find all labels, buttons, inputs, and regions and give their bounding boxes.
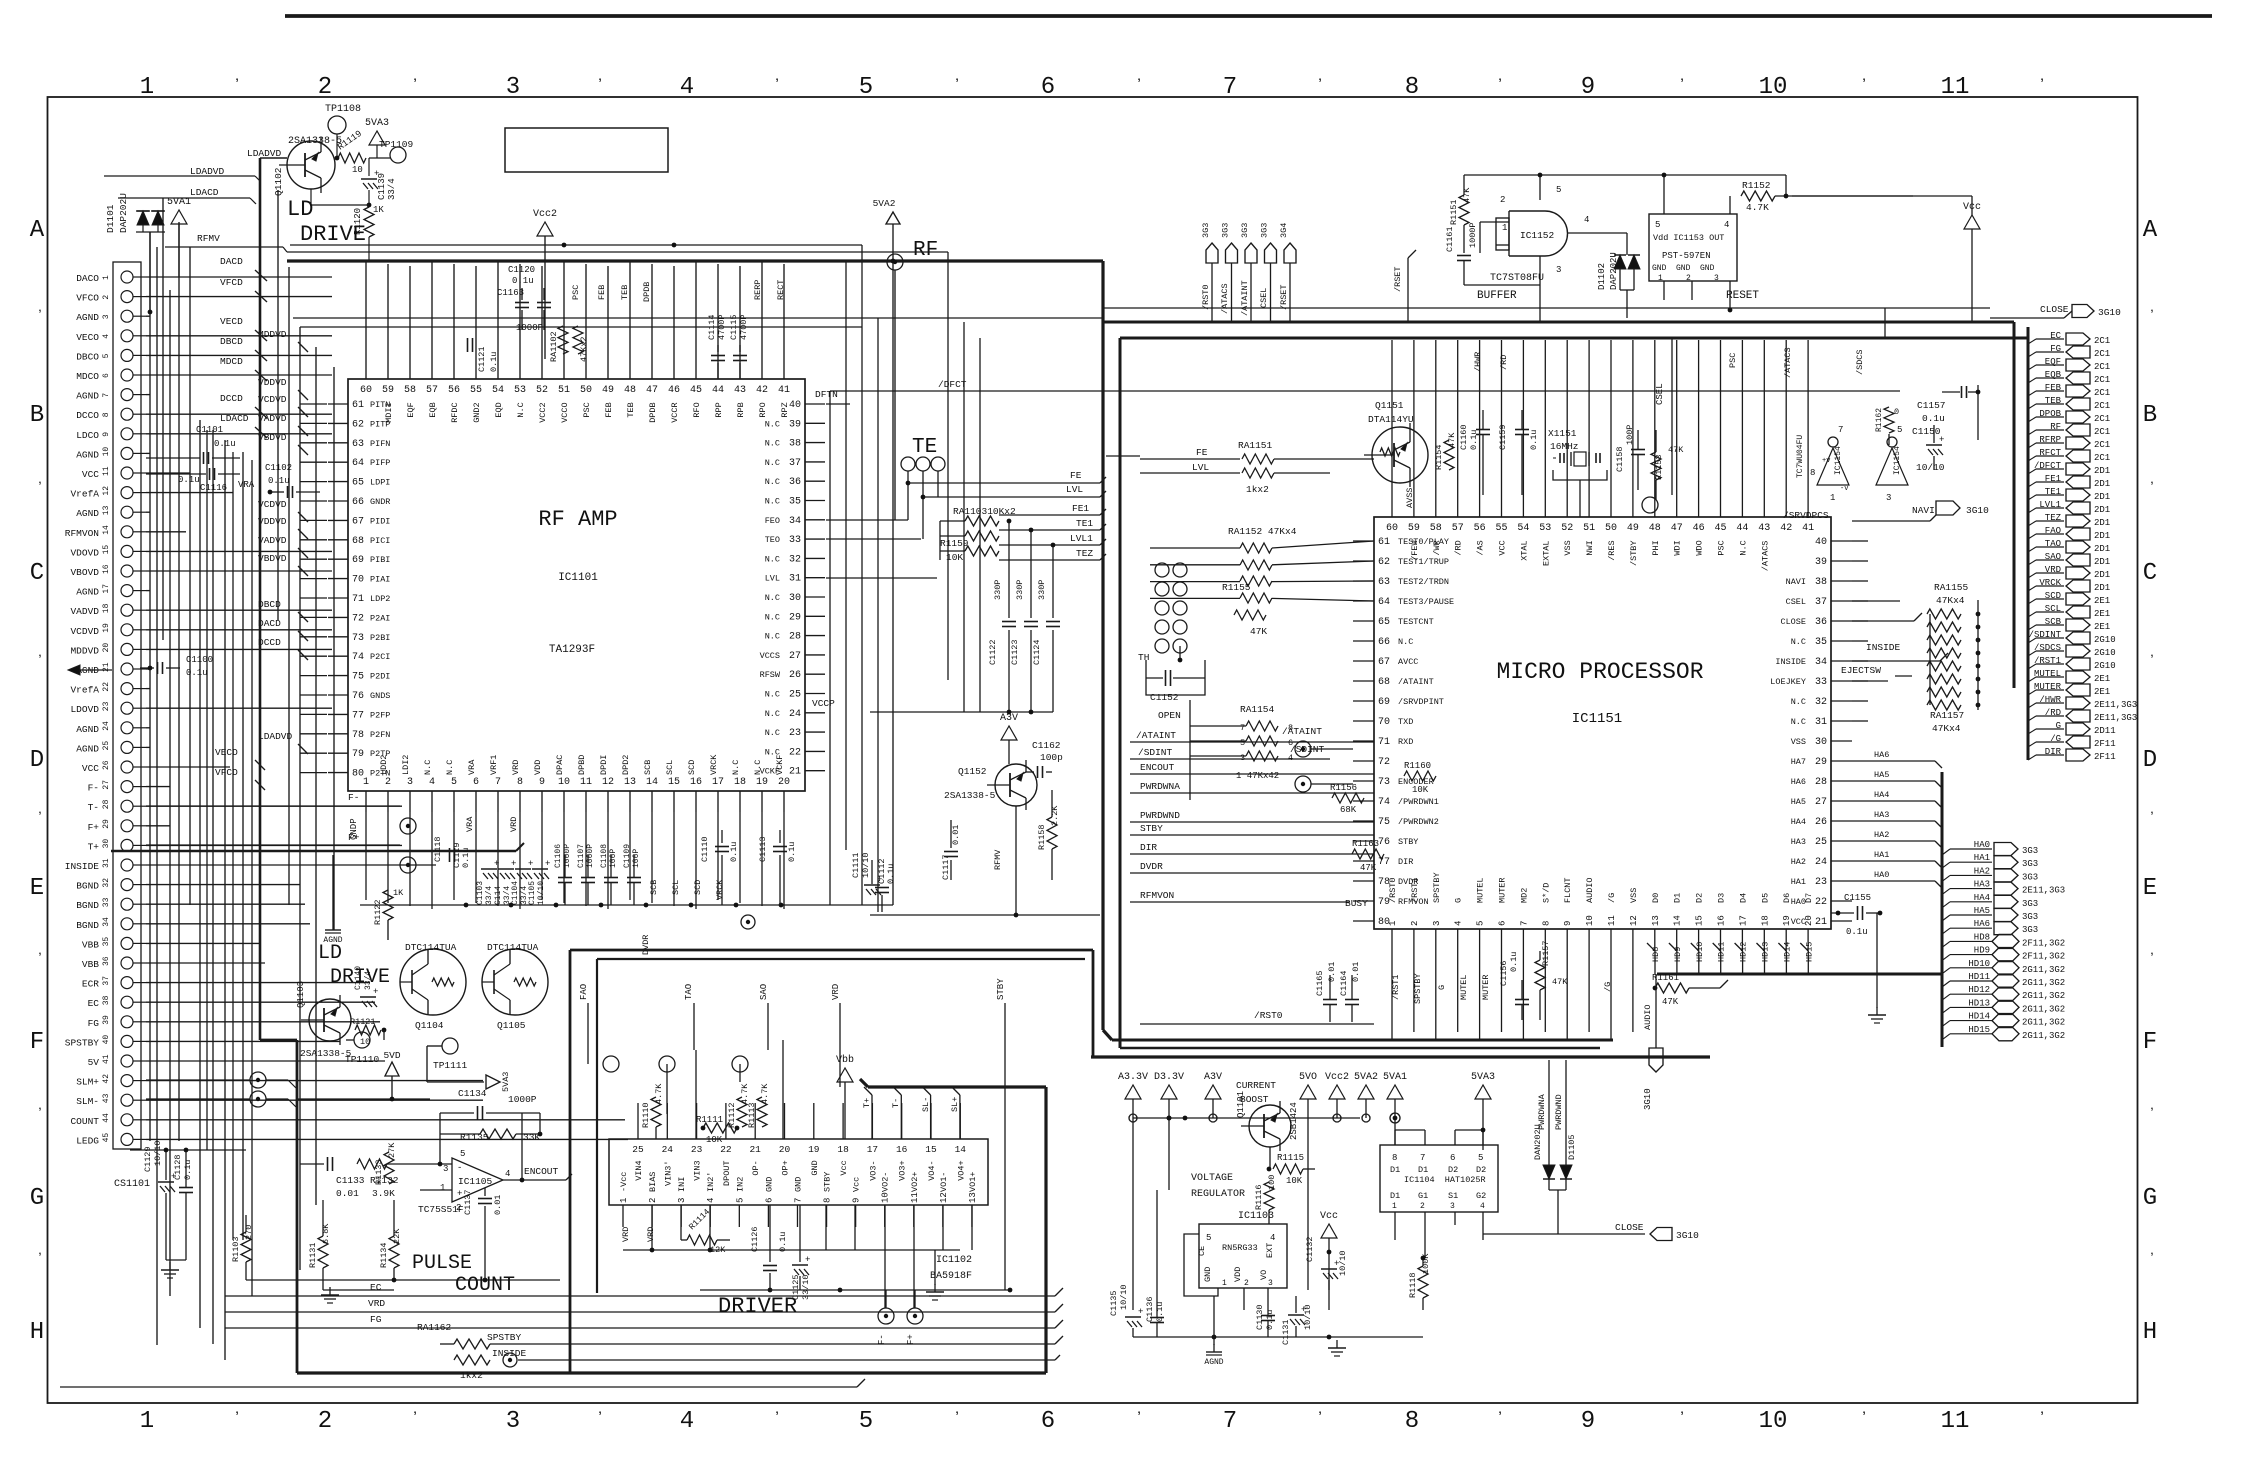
svg-text:RERP: RERP <box>753 280 763 300</box>
svg-text:5: 5 <box>102 353 111 358</box>
wire vertical bundle <box>156 247 158 1345</box>
svg-text:50: 50 <box>580 385 592 396</box>
svg-text:HD15: HD15 <box>1968 1025 1990 1035</box>
svg-text:TC75S51F: TC75S51F <box>418 1204 464 1215</box>
svg-text:12: 12 <box>939 1192 949 1203</box>
net arrow HD12 <box>1942 994 1950 1000</box>
connector CS1101 pin 20 (MDDVD) <box>121 643 133 655</box>
svg-text:SCB: SCB <box>643 760 653 775</box>
svg-text:SPSTBY: SPSTBY <box>487 1332 522 1343</box>
svg-text:25: 25 <box>102 741 111 751</box>
IC1151 pin 17 bottom <box>1741 929 1743 951</box>
svg-text:VDDVD: VDDVD <box>258 516 287 527</box>
svg-text:14: 14 <box>955 1144 967 1155</box>
power Vcc2 above RF AMP <box>537 222 553 236</box>
svg-text:S1: S1 <box>1448 1191 1458 1201</box>
IC1101 pin 13 bottom <box>629 791 631 812</box>
wire to IC1101 left pin <box>300 422 327 424</box>
svg-text:+v: +v <box>1822 457 1830 465</box>
wires IC1104 top <box>1394 1130 1396 1145</box>
IC1151 pin 76 left <box>1353 840 1374 842</box>
svg-text:P2CI: P2CI <box>370 652 390 662</box>
svg-text:18: 18 <box>734 777 746 788</box>
svg-text:TP1108: TP1108 <box>325 104 361 115</box>
svg-text:EJECTSW: EJECTSW <box>1841 665 1881 676</box>
wire from CS1101 pin 18 <box>146 609 332 611</box>
svg-text:77: 77 <box>352 710 364 721</box>
connector CS1101 pin 2 (VFCO) <box>121 291 133 303</box>
wire from CS1101 pin 32 <box>146 884 300 886</box>
transistor Q1152 2SA1338-5 <box>995 764 1037 806</box>
svg-text:ʼ: ʼ <box>1315 77 1325 95</box>
svg-text:C1124: C1124 <box>1032 639 1042 665</box>
svg-text:/HWR: /HWR <box>1473 352 1483 372</box>
svg-text:H: H <box>2143 1319 2157 1346</box>
svg-text:LDCO: LDCO <box>76 430 99 441</box>
IC1101 pin 27 right <box>805 654 825 656</box>
IC1151 pin 7 bottom <box>1522 929 1524 951</box>
svg-text:21: 21 <box>1815 917 1827 928</box>
svg-text:N.C: N.C <box>1791 697 1806 707</box>
svg-text:0.1u: 0.1u <box>489 352 499 372</box>
svg-text:C: C <box>30 560 44 587</box>
title rule top <box>285 14 2212 18</box>
svg-text:TEB: TEB <box>626 402 636 417</box>
svg-text:0.1u: 0.1u <box>1469 430 1479 450</box>
svg-text:2C1: 2C1 <box>2094 453 2110 463</box>
svg-text:35: 35 <box>1815 637 1827 648</box>
svg-text:FLCNT: FLCNT <box>1563 877 1573 903</box>
svg-text:LVL: LVL <box>1066 484 1083 495</box>
svg-text:VOLTAGE: VOLTAGE <box>1191 1173 1233 1184</box>
svg-text:47K: 47K <box>1662 997 1679 1007</box>
wire from CS1101 pin 21 <box>146 668 150 670</box>
svg-text:MUTER: MUTER <box>1481 974 1491 1000</box>
AND gate IC1152 <box>1508 211 1510 256</box>
svg-text:HD11: HD11 <box>1717 942 1727 962</box>
svg-text:74: 74 <box>1378 797 1390 808</box>
op-amp block IC1101 RF AMP body <box>348 379 805 791</box>
wire bus y308 <box>1104 307 1990 309</box>
bus thick vertical x1046 <box>1044 1087 1047 1373</box>
svg-text:38: 38 <box>1815 577 1827 588</box>
svg-text:IC1154: IC1154 <box>1834 446 1843 475</box>
IC1151 pin 5 bottom <box>1479 929 1481 951</box>
svg-text:62: 62 <box>1378 557 1390 568</box>
svg-text:VO1+: VO1+ <box>968 1172 978 1192</box>
wire from CS1101 pin 33 <box>146 903 305 905</box>
wire vertical x252 <box>251 460 253 1296</box>
svg-text:HA5: HA5 <box>1874 770 1889 780</box>
svg-text:RF AMP: RF AMP <box>538 507 617 532</box>
svg-text:11: 11 <box>580 777 592 788</box>
svg-text:IC1151: IC1151 <box>1572 711 1622 727</box>
svg-text:5VA2: 5VA2 <box>873 198 896 209</box>
svg-text:STBY: STBY <box>1398 837 1418 847</box>
wire mid verticals2 <box>963 322 965 712</box>
svg-text:1000P: 1000P <box>1468 222 1478 248</box>
wire from CS1101 pin 9 <box>146 433 332 435</box>
svg-text:+: + <box>511 859 516 869</box>
svg-text:IC1102: IC1102 <box>936 1255 972 1266</box>
svg-text:61: 61 <box>1378 537 1390 548</box>
svg-text:43: 43 <box>734 385 746 396</box>
svg-text:0.1u: 0.1u <box>268 476 290 486</box>
connector CS1101 pin 45 (LEDG) <box>121 1133 133 1145</box>
svg-text:AGND: AGND <box>1204 1358 1223 1367</box>
net arrow MUTEL <box>2028 677 2036 682</box>
svg-text:DBCD: DBCD <box>220 336 243 347</box>
IC1101 pin 10 bottom <box>563 791 565 812</box>
svg-text:STBY: STBY <box>996 978 1006 1000</box>
net arrow VRCK <box>2028 586 2036 591</box>
svg-text:2SA1338-5: 2SA1338-5 <box>300 1048 352 1059</box>
svg-text:0.1u: 0.1u <box>512 276 534 286</box>
connector CS1101 pin 11 (VCC) <box>121 467 133 479</box>
svg-text:HD8: HD8 <box>1974 932 1990 942</box>
svg-text:21: 21 <box>749 1144 761 1155</box>
IC1151 pin 54 top <box>1522 495 1524 517</box>
svg-text:ʼ: ʼ <box>1495 1410 1505 1428</box>
svg-text:53: 53 <box>1539 523 1551 534</box>
wire from CS1101 pin 14 <box>146 531 186 533</box>
IC1101 pin 51 top <box>563 359 565 379</box>
svg-text:VRCK: VRCK <box>715 879 725 900</box>
IC1102 pin 8 bottom <box>826 1205 828 1227</box>
svg-text:C1161: C1161 <box>1445 226 1455 252</box>
svg-text:VSS: VSS <box>1791 737 1806 747</box>
connector CS1101 pin 19 (VCDVD) <box>121 624 133 636</box>
bus thick vertical MPU right inner <box>2027 327 2030 760</box>
svg-text:/SRVDPINT: /SRVDPINT <box>1398 697 1444 707</box>
svg-text:RFCT: RFCT <box>2039 448 2061 458</box>
wire diode bottoms <box>136 231 165 233</box>
svg-text:PIAI: PIAI <box>370 575 390 585</box>
svg-text:R1162: R1162 <box>1875 408 1884 432</box>
svg-text:FG: FG <box>88 1018 100 1029</box>
svg-text:VDD: VDD <box>1233 1267 1243 1282</box>
IC1151 pin 63 left <box>1353 580 1374 582</box>
svg-text:2D1: 2D1 <box>2094 492 2110 502</box>
IC1151 pin 1 bottom <box>1391 929 1393 951</box>
svg-text:LVL1: LVL1 <box>1070 533 1093 544</box>
wire from CS1101 pin 15 <box>146 550 332 552</box>
IC1102 pin 19 top <box>813 1103 815 1139</box>
svg-text:47K: 47K <box>1250 626 1267 637</box>
svg-text:75: 75 <box>352 672 364 683</box>
svg-text:5: 5 <box>859 1408 873 1435</box>
svg-text:13: 13 <box>624 777 636 788</box>
IC1151 pin 50 top <box>1610 495 1612 517</box>
connector CS1101 pin 17 (AGND) <box>121 585 133 597</box>
svg-text:0.1u: 0.1u <box>729 842 739 862</box>
svg-text:11: 11 <box>1607 915 1617 926</box>
svg-text:6: 6 <box>764 1198 774 1203</box>
svg-text:INSIDE: INSIDE <box>492 1348 527 1359</box>
svg-text:SCL: SCL <box>2045 604 2061 614</box>
svg-text:45: 45 <box>690 385 702 396</box>
svg-text:BUFFER: BUFFER <box>1477 290 1517 302</box>
svg-text:PSC: PSC <box>582 402 592 417</box>
svg-text:5: 5 <box>1478 1153 1483 1163</box>
connector CS1101 pin 22 (VrefA) <box>121 683 133 695</box>
svg-text:4: 4 <box>505 1169 510 1179</box>
wire long row2 <box>300 326 862 328</box>
wire driver gnd rail <box>700 1289 1010 1291</box>
svg-text:C1105: C1105 <box>528 881 537 905</box>
diode D1101 DAP202U b <box>152 211 164 225</box>
svg-text:75: 75 <box>1378 817 1390 828</box>
wire gate pin3 down <box>1539 256 1541 285</box>
bus thick horizontal MPU bottom a <box>1112 1039 1613 1042</box>
IC1151 pin 41 top <box>1807 495 1809 517</box>
driver input circles <box>603 1056 619 1072</box>
wire to IC1101 left pin <box>300 442 327 444</box>
svg-text:/ATACS: /ATACS <box>1220 283 1230 314</box>
svg-text:20: 20 <box>1804 915 1814 926</box>
svg-text:14: 14 <box>1673 915 1683 926</box>
svg-text:D: D <box>30 747 44 774</box>
IC1151 pin 22 right <box>1831 900 1852 902</box>
svg-text:MDDVD: MDDVD <box>70 645 99 656</box>
svg-text:3: 3 <box>1450 1202 1455 1211</box>
svg-text:69: 69 <box>1378 697 1390 708</box>
svg-text:5: 5 <box>735 1198 745 1203</box>
svg-text:44: 44 <box>1736 523 1748 534</box>
svg-text:+: + <box>805 1255 810 1265</box>
wire from CS1101 pin 39 <box>146 1021 380 1023</box>
svg-text:Vcc2: Vcc2 <box>533 209 557 220</box>
svg-text:C1107: C1107 <box>577 844 586 868</box>
svg-text:D1: D1 <box>1673 893 1683 903</box>
svg-text:10/10: 10/10 <box>537 881 546 905</box>
svg-text:17: 17 <box>712 777 724 788</box>
svg-text:C1103: C1103 <box>476 881 485 905</box>
svg-text:47Kx4: 47Kx4 <box>1936 595 1965 606</box>
svg-text:VRD: VRD <box>646 1227 656 1242</box>
IC1101 pin 77 left (P2FP) <box>328 713 348 715</box>
svg-text:3: 3 <box>1556 265 1561 275</box>
svg-text:D4: D4 <box>1738 893 1748 903</box>
svg-text:62: 62 <box>352 419 364 430</box>
svg-text:SCB: SCB <box>649 880 659 895</box>
svg-text:ʼ: ʼ <box>952 77 962 95</box>
wires driver top pins up <box>666 1064 668 1114</box>
svg-text:C1122: C1122 <box>988 639 998 665</box>
wire to IC1101 left pin <box>300 733 327 735</box>
svg-text:RF: RF <box>913 239 938 262</box>
svg-text:24: 24 <box>789 709 801 720</box>
IC1151 pin 25 right <box>1831 840 1852 842</box>
wire from CS1101 pin 13 <box>146 511 150 513</box>
svg-text:C1121: C1121 <box>477 346 487 372</box>
wire Q1102 emitter <box>310 189 312 205</box>
svg-text:0.1u: 0.1u <box>1529 430 1539 450</box>
connector CS1101 pin 15 (VDOVD) <box>121 545 133 557</box>
IC1101 pin 26 right <box>805 673 825 675</box>
svg-text:50: 50 <box>1605 523 1617 534</box>
IC1151 pin 31 right <box>1831 720 1852 722</box>
svg-text:12: 12 <box>602 777 614 788</box>
svg-text:DCCD: DCCD <box>220 393 243 404</box>
svg-text:HA7: HA7 <box>1791 757 1806 767</box>
bus thick HA/HD vertical <box>1941 772 1944 1047</box>
svg-text:FEO: FEO <box>765 516 780 526</box>
svg-text:TEST3/PAUSE: TEST3/PAUSE <box>1398 597 1454 607</box>
svg-text:48: 48 <box>1649 523 1661 534</box>
svg-text:1kx2: 1kx2 <box>460 1370 483 1381</box>
svg-text:40: 40 <box>1815 537 1827 548</box>
svg-text:+: + <box>528 859 533 869</box>
svg-text:10: 10 <box>558 777 570 788</box>
svg-text:2D1: 2D1 <box>2094 583 2110 593</box>
svg-text:TEST0/PLAY: TEST0/PLAY <box>1398 537 1449 547</box>
net arrow HA5 <box>1942 915 1950 921</box>
wire STBY vertical <box>1004 1003 1006 1290</box>
IC1151 pin 29 right <box>1831 760 1852 762</box>
svg-text:C1109: C1109 <box>623 844 632 868</box>
IC1101 pin 45 top <box>695 359 697 379</box>
svg-text:/ATACS: /ATACS <box>1783 347 1793 378</box>
svg-text:GND: GND <box>764 1177 774 1192</box>
IC1101 pin 48 top <box>629 359 631 379</box>
net arrow VRD <box>2028 573 2036 578</box>
svg-text:43: 43 <box>102 1093 111 1103</box>
svg-text:DVDR: DVDR <box>1140 861 1163 872</box>
wire IC1101 top pin up <box>475 266 477 359</box>
power Vbb <box>837 1068 853 1082</box>
IC1101 pin 20 bottom <box>783 791 785 812</box>
svg-text:VCKF: VCKF <box>775 755 785 775</box>
svg-text:35: 35 <box>789 497 801 508</box>
net arrow HD15 <box>1942 1034 1950 1040</box>
IC1101 pin 59 top <box>387 359 389 379</box>
wire from CS1101 pin 31 <box>146 864 436 866</box>
svg-text:DBCO: DBCO <box>76 351 99 362</box>
svg-text:D2: D2 <box>1695 893 1705 903</box>
wire from CS1101 pin 36 <box>146 962 265 964</box>
IC1102 pin 6 bottom <box>767 1205 769 1227</box>
IC1151 pin 78 left <box>1353 880 1374 882</box>
svg-text:HA3: HA3 <box>1874 810 1889 820</box>
IC1101 pin 62 left (PITP) <box>328 422 348 424</box>
svg-text:MDCO: MDCO <box>76 371 99 382</box>
svg-text:HD12: HD12 <box>1739 942 1749 962</box>
svg-text:19: 19 <box>808 1144 820 1155</box>
bus corner <box>1103 1030 1112 1040</box>
svg-text:30: 30 <box>789 593 801 604</box>
wire /DFCT <box>830 390 1900 392</box>
svg-text:2: 2 <box>102 295 111 300</box>
wire IC1101 top pin up <box>409 266 411 359</box>
IC1102 pin 20 top <box>784 1103 786 1139</box>
svg-text:29: 29 <box>789 612 801 623</box>
IC1151 pin 69 left <box>1353 700 1374 702</box>
svg-text:FEB: FEB <box>597 285 607 300</box>
svg-text:H: H <box>30 1319 44 1346</box>
wire vertical bundle <box>212 430 214 1344</box>
net CSEL right <box>1852 600 1900 602</box>
svg-text:TESTCNT: TESTCNT <box>1398 617 1434 627</box>
wires HD8-15 down <box>1654 951 1656 974</box>
svg-text:ʼ: ʼ <box>2148 951 2156 968</box>
svg-text:6: 6 <box>1041 1408 1055 1435</box>
svg-text:RA1155: RA1155 <box>1934 582 1969 593</box>
svg-text:7: 7 <box>1223 74 1237 101</box>
svg-text:+: + <box>457 1189 462 1199</box>
IC1151 pin 44 top <box>1741 495 1743 517</box>
wire to IC1101 left pin <box>300 519 327 521</box>
wire TH bottom <box>1179 646 1181 660</box>
svg-text:11: 11 <box>1941 1408 1970 1435</box>
svg-text:4: 4 <box>1480 1202 1485 1211</box>
bus thick vertical left of MPU outer <box>1101 261 1104 1030</box>
svg-text:VO4-: VO4- <box>927 1160 937 1180</box>
svg-text:N.C: N.C <box>765 728 780 738</box>
svg-text:C1118: C1118 <box>433 836 443 862</box>
bus thick horizontal R1161 <box>1657 973 1942 976</box>
svg-text:1: 1 <box>1502 223 1507 233</box>
connector CS1101 pin 39 (FG) <box>121 1016 133 1028</box>
IC1151 pin 51 top <box>1588 495 1590 517</box>
connector CS1101 pin 4 (VECO) <box>121 330 133 342</box>
net arrow FEB <box>2028 391 2036 396</box>
svg-text:DTA114YU: DTA114YU <box>1368 414 1414 425</box>
IC1102 pin 24 top <box>666 1103 668 1139</box>
svg-text:FE1: FE1 <box>1072 503 1089 514</box>
svg-text:63: 63 <box>1378 577 1390 588</box>
svg-text:Q1101: Q1101 <box>1236 1091 1246 1118</box>
svg-text:VBOVD: VBOVD <box>70 567 99 578</box>
svg-text:2G11,3G2: 2G11,3G2 <box>2022 1031 2065 1041</box>
svg-text:1: 1 <box>102 275 111 280</box>
net arrow /DFCT <box>2028 469 2036 474</box>
net arrow HA2 <box>1942 875 1950 881</box>
svg-text:45: 45 <box>102 1133 111 1143</box>
svg-text:D6: D6 <box>1782 893 1792 903</box>
IC1151 pin 10 bottom <box>1588 929 1590 951</box>
svg-text:HA0: HA0 <box>1974 840 1990 850</box>
bus LDADVD thick vertical <box>259 158 262 1040</box>
bus thick horizontal top <box>287 259 1103 262</box>
svg-text:16: 16 <box>102 564 111 574</box>
svg-text:2D1: 2D1 <box>2094 466 2110 476</box>
wire power rail bottom <box>1133 1117 1360 1119</box>
svg-text:VCCO: VCCO <box>560 402 570 422</box>
svg-text:5VA1: 5VA1 <box>167 197 191 208</box>
svg-text:5VA1: 5VA1 <box>1383 1072 1407 1083</box>
resistor R1119 10 <box>338 153 366 163</box>
svg-text:/SRVDPCS: /SRVDPCS <box>1783 510 1829 521</box>
IC1151 pin 42 top <box>1785 495 1787 517</box>
svg-text:IC1152: IC1152 <box>1520 230 1555 241</box>
svg-text:17: 17 <box>1738 915 1748 926</box>
svg-text:30: 30 <box>1815 737 1827 748</box>
wire SCD long <box>655 933 657 935</box>
IC1101 pin 70 left (PIAI) <box>328 578 348 580</box>
wire vertical bundle <box>288 267 290 905</box>
svg-text:SCB: SCB <box>2045 617 2062 627</box>
wire IC1101 top pin up <box>651 264 653 359</box>
svg-text:36: 36 <box>789 477 801 488</box>
svg-text:P2AI: P2AI <box>370 613 390 623</box>
svg-text:53: 53 <box>514 385 526 396</box>
svg-text:33/10: 33/10 <box>801 1274 811 1300</box>
wire FEO to TE <box>826 519 908 521</box>
svg-text:MUTEL: MUTEL <box>1476 877 1486 903</box>
svg-text:2D1: 2D1 <box>2094 544 2110 554</box>
svg-text:RFRP: RFRP <box>2039 435 2061 445</box>
